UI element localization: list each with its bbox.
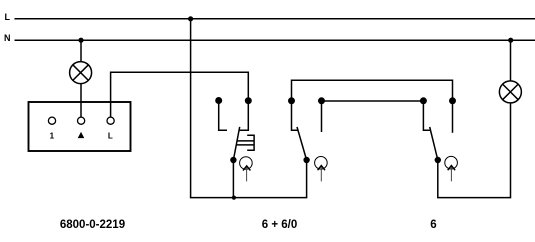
- svg-text:L: L: [108, 131, 113, 140]
- net L: [15, 18, 535, 20]
- wire S3 to lamp E2 bottom: [438, 103, 511, 198]
- svg-text:1: 1: [50, 131, 55, 140]
- push-button S1 terminal dot left: [215, 97, 222, 104]
- switch S3 pivot stub: [423, 101, 430, 130]
- svg-text:6 + 6/0: 6 + 6/0: [262, 219, 298, 231]
- switch S2 blade: [297, 127, 307, 160]
- svg-text:N: N: [4, 33, 11, 43]
- wire N to lamp E1: [80, 40, 82, 62]
- push-button S1 actuator linkage: [236, 141, 254, 145]
- switch S3 terminal dot right: [449, 97, 456, 104]
- svg-text:6800-0-2219: 6800-0-2219: [60, 219, 125, 231]
- wire L feed down: [190, 19, 192, 198]
- switch S2 pivot stub: [292, 101, 298, 130]
- terminal L: [107, 117, 114, 124]
- wire S1 to bottom bus: [232, 160, 234, 198]
- junction on N line right: [508, 38, 513, 43]
- svg-text:L: L: [5, 12, 11, 22]
- traveller wire upper S2 to S3: [292, 80, 453, 101]
- control unit 6800-0-2219 box: [29, 102, 131, 151]
- push-button S1 blade: [233, 127, 239, 160]
- push-button S1 fixed contact left: [219, 101, 227, 131]
- junction on L line: [188, 16, 193, 21]
- push-button S1 terminal dot right: [245, 97, 252, 104]
- terminal 1: [48, 117, 55, 124]
- push-button S1 actuator bracket: [247, 135, 254, 150]
- net N: [15, 39, 535, 41]
- lamp E1: [70, 62, 92, 84]
- terminal arrow: [78, 117, 85, 124]
- wire bottom bus left: [190, 197, 307, 199]
- switch S3 moving contact dot: [435, 157, 441, 163]
- svg-text:6: 6: [430, 219, 436, 231]
- wire N to lamp E2: [510, 40, 512, 81]
- locator lamp of S2: [315, 157, 328, 182]
- switch S3 blade: [430, 127, 438, 160]
- label terminal arrow: [78, 132, 85, 138]
- switch S2 terminal dot right: [318, 97, 325, 104]
- switch S3 terminal dot left: [420, 97, 427, 104]
- switch S2 terminal dot left: [288, 97, 295, 104]
- switch S3 fixed contact right: [452, 101, 454, 133]
- lamp E2: [499, 81, 521, 103]
- wire S2 to bottom bus: [306, 160, 308, 198]
- switch S2 fixed contact right: [321, 101, 323, 132]
- locator lamp of S3: [445, 156, 458, 181]
- switch S2 moving contact dot: [303, 157, 309, 163]
- push-button S1 moving contact dot: [230, 157, 236, 163]
- wire terminal L up and over to S1: [111, 72, 249, 117]
- junction on N line: [78, 38, 83, 43]
- push-button S1 fixed contact right: [240, 101, 249, 131]
- junction on bottom bus: [232, 196, 236, 200]
- locator lamp of S1: [240, 157, 253, 182]
- traveller wire middle S2 to S3: [322, 100, 424, 102]
- wire lamp E1 to terminal arrow: [80, 84, 82, 118]
